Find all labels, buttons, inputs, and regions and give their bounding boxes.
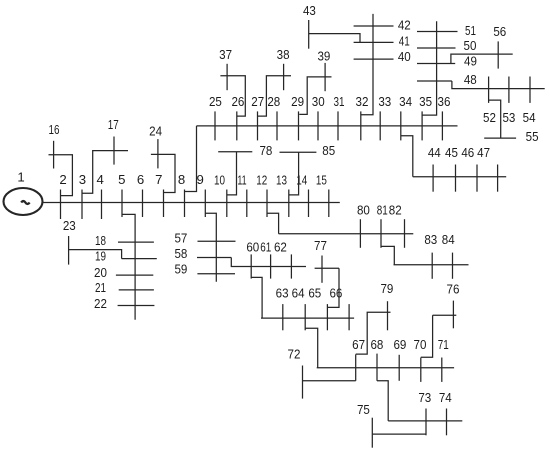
wire bus5 down, spine of comb 18-22 — [122, 214, 135, 319]
bus 52 — [488, 77, 490, 103]
svg-text:84: 84 — [442, 232, 455, 247]
bus 12 — [266, 190, 268, 218]
svg-text:39: 39 — [317, 48, 330, 63]
wire bus8 up to line 25-36 — [185, 126, 197, 192]
bus 44 — [432, 165, 434, 192]
svg-text:17: 17 — [108, 117, 119, 132]
wire bus10 up to bus78 — [227, 152, 237, 195]
svg-text:76: 76 — [447, 282, 460, 297]
wire line 25-36 — [197, 125, 458, 127]
svg-text:83: 83 — [424, 232, 437, 247]
svg-text:26: 26 — [231, 94, 244, 109]
svg-text:19: 19 — [95, 249, 106, 264]
bus 10 — [226, 190, 228, 218]
bus 76 — [452, 301, 454, 329]
svg-text:47: 47 — [477, 145, 490, 160]
generator tilde symbol — [21, 201, 29, 204]
wire main feeder buses 2-15 — [43, 202, 340, 204]
svg-text:28: 28 — [267, 94, 280, 109]
svg-text:73: 73 — [418, 390, 431, 405]
wire bus76 horizontal tick — [433, 314, 457, 316]
bus 27 — [257, 111, 259, 140]
wire bus75 horizontal to bus73 — [372, 433, 426, 435]
svg-text:36: 36 — [438, 94, 451, 109]
bus 21 — [119, 289, 154, 291]
bus 16 — [53, 141, 55, 169]
svg-text:30: 30 — [312, 94, 325, 109]
svg-text:8: 8 — [178, 172, 185, 187]
bus 63 — [282, 304, 284, 330]
wire bus58 to line 60-62 — [231, 258, 306, 267]
bus 17 — [113, 137, 115, 165]
svg-text:62: 62 — [274, 240, 287, 255]
svg-text:40: 40 — [398, 49, 411, 64]
svg-text:46: 46 — [461, 145, 474, 160]
wire bus67 up to bus79 — [356, 312, 391, 354]
svg-text:34: 34 — [399, 94, 412, 109]
svg-text:48: 48 — [464, 72, 477, 87]
bus 48 — [417, 80, 452, 82]
bus 66 — [348, 304, 350, 330]
wire bus34 down to comb 44-47 — [401, 136, 413, 177]
bus 80 — [359, 219, 361, 248]
bus 53 — [508, 77, 510, 103]
svg-text:10: 10 — [214, 173, 225, 188]
wire bus3 to bus17 — [82, 151, 128, 194]
bus 72 — [302, 366, 304, 399]
bus 37 — [226, 64, 228, 90]
svg-text:69: 69 — [393, 337, 406, 352]
bus 28 — [276, 111, 278, 140]
svg-text:77: 77 — [314, 238, 327, 253]
svg-text:41: 41 — [399, 34, 410, 49]
bus 32 — [360, 111, 362, 140]
bus 84 — [452, 253, 454, 279]
bus 18 — [118, 241, 154, 243]
svg-text:3: 3 — [79, 172, 86, 187]
bus 4 — [101, 190, 103, 220]
svg-text:57: 57 — [174, 231, 187, 246]
svg-text:79: 79 — [380, 281, 393, 296]
bus 24 — [157, 139, 159, 168]
bus 54 — [529, 77, 531, 103]
svg-text:23: 23 — [63, 218, 76, 233]
wire bus49 to bus56 — [451, 54, 513, 63]
generator G1 (bus 1) — [4, 188, 43, 215]
bus 61 — [270, 254, 272, 278]
wire bus12 down to line 80-82 — [267, 213, 279, 234]
bus 41 — [354, 41, 394, 43]
svg-text:66: 66 — [329, 285, 342, 300]
wire bus23 to comb 18-22 — [69, 250, 122, 259]
svg-text:42: 42 — [398, 17, 411, 32]
svg-text:25: 25 — [209, 94, 222, 109]
wire bus65 up to bus77 — [327, 268, 339, 307]
bus 45 — [455, 165, 457, 192]
svg-text:44: 44 — [428, 145, 441, 160]
svg-text:37: 37 — [219, 47, 232, 62]
wire comb line 44-47 — [413, 176, 506, 178]
bus 65 — [326, 304, 328, 330]
svg-text:70: 70 — [414, 337, 427, 352]
bus 19 — [122, 258, 157, 260]
svg-text:53: 53 — [502, 110, 515, 125]
svg-text:45: 45 — [445, 145, 458, 160]
bus 29 — [298, 111, 300, 140]
bus 13 — [288, 190, 290, 218]
svg-text:33: 33 — [378, 94, 391, 109]
svg-text:31: 31 — [334, 94, 345, 109]
wire bus13 up to bus85 — [289, 152, 299, 195]
svg-text:16: 16 — [49, 122, 60, 137]
bus 39 — [324, 63, 326, 91]
bus 46 — [476, 165, 478, 192]
bus 42 — [354, 25, 394, 27]
bus 82 — [404, 219, 406, 248]
svg-text:65: 65 — [308, 285, 321, 300]
bus 40 — [354, 58, 394, 60]
bus 70 — [420, 358, 422, 382]
svg-text:71: 71 — [438, 337, 449, 352]
bus 83 — [431, 253, 433, 279]
svg-text:9: 9 — [197, 172, 204, 187]
bus 23 — [68, 236, 70, 265]
bus 59 — [197, 273, 235, 275]
bus 81 — [380, 219, 382, 248]
wire bus9 down, spine of comb 57-59 — [205, 213, 216, 282]
wire bus2 to bus16 — [49, 155, 73, 196]
svg-text:2: 2 — [59, 172, 66, 187]
svg-text:59: 59 — [174, 262, 187, 277]
wire bus29 up to bus39 — [299, 77, 331, 115]
bus 49 — [417, 63, 455, 65]
svg-text:68: 68 — [370, 337, 383, 352]
wire comb line 67-71 — [317, 367, 454, 369]
bus 79 — [387, 301, 389, 330]
svg-text:52: 52 — [483, 110, 496, 125]
svg-text:51: 51 — [465, 23, 476, 38]
svg-text:63: 63 — [276, 285, 289, 300]
bus 11 — [246, 190, 248, 218]
bus 7 — [163, 190, 165, 218]
svg-text:50: 50 — [464, 38, 477, 53]
bus 69 — [398, 355, 400, 381]
wire bus77 horizontal tick — [315, 267, 339, 269]
bus 62 — [290, 254, 292, 278]
bus 77 — [321, 256, 323, 283]
bus 3 — [81, 190, 83, 220]
svg-text:60: 60 — [246, 240, 259, 255]
wire bus35 up, spine of 48-51 — [422, 21, 437, 115]
bus 85 — [280, 151, 317, 153]
wire bus26 up to bus37 — [220, 76, 245, 116]
svg-text:64: 64 — [292, 285, 305, 300]
bus 9 — [204, 190, 206, 218]
svg-text:29: 29 — [291, 94, 304, 109]
svg-text:67: 67 — [352, 337, 365, 352]
wire bus68 down to comb 73-74 — [377, 381, 388, 421]
bus 25 — [214, 111, 216, 140]
svg-text:49: 49 — [464, 54, 477, 69]
wire bus48 to line 52-54 — [452, 81, 545, 89]
bus 15 — [328, 190, 330, 218]
bus 78 — [218, 151, 252, 153]
svg-text:80: 80 — [357, 203, 370, 218]
bus 26 — [236, 111, 238, 140]
bus 50 — [417, 47, 456, 49]
svg-text:32: 32 — [356, 94, 369, 109]
svg-text:1: 1 — [17, 169, 24, 184]
svg-text:4: 4 — [97, 172, 104, 187]
svg-text:24: 24 — [149, 124, 162, 139]
bus 64 — [304, 304, 306, 330]
bus 51 — [417, 31, 458, 33]
wire bus60 down to comb 63-66 — [251, 277, 262, 318]
svg-text:75: 75 — [357, 402, 370, 417]
svg-text:7: 7 — [155, 172, 162, 187]
bus 58 — [197, 257, 231, 259]
bus 2 — [60, 190, 62, 220]
bus 6 — [142, 190, 144, 218]
wire bus27 up to bus38 — [258, 76, 291, 116]
bus 75 — [371, 418, 373, 448]
bus 8 — [184, 190, 186, 218]
bus 38 — [283, 64, 285, 90]
bus 55 — [484, 137, 516, 139]
svg-text:12: 12 — [256, 173, 267, 188]
bus 31 — [337, 111, 339, 140]
svg-text:55: 55 — [526, 129, 539, 144]
wire comb line 83-84 — [394, 264, 469, 266]
svg-text:61: 61 — [260, 240, 271, 255]
bus 71 — [441, 358, 443, 382]
bus 14 — [308, 190, 310, 218]
bus 56 — [497, 41, 499, 68]
wire bus52 down to bus55 — [489, 100, 501, 138]
bus 33 — [379, 111, 381, 140]
svg-text:21: 21 — [95, 280, 106, 295]
svg-text:78: 78 — [259, 143, 272, 158]
svg-text:15: 15 — [316, 173, 327, 188]
bus 34 — [400, 111, 402, 140]
wire line 80-82 — [279, 233, 414, 235]
bus 36 — [441, 111, 443, 140]
wire bus64 down to comb 67-71 — [305, 328, 318, 368]
bus 5 — [121, 190, 123, 218]
wire bus7 to bus24 — [151, 154, 175, 192]
bus 35 — [421, 111, 423, 140]
bus 68 — [376, 354, 378, 381]
svg-text:5: 5 — [118, 172, 125, 187]
bus 30 — [317, 111, 319, 140]
svg-text:72: 72 — [288, 346, 301, 361]
svg-text:74: 74 — [439, 390, 452, 405]
svg-text:22: 22 — [94, 296, 107, 311]
svg-text:43: 43 — [303, 3, 316, 18]
svg-text:14: 14 — [296, 173, 307, 188]
svg-text:13: 13 — [276, 173, 287, 188]
svg-text:85: 85 — [322, 143, 335, 158]
bus 57 — [198, 240, 236, 242]
svg-text:54: 54 — [523, 110, 536, 125]
wire bus70 up to bus76 — [421, 315, 433, 357]
bus 20 — [116, 274, 153, 276]
bus 22 — [118, 305, 155, 307]
wire bus32 up, spine of 40-42 — [361, 14, 373, 115]
wire bus81 to comb 83-84 — [381, 246, 394, 264]
svg-text:58: 58 — [174, 246, 187, 261]
svg-text:35: 35 — [419, 94, 432, 109]
bus 43 — [308, 20, 310, 49]
svg-text:18: 18 — [95, 233, 106, 248]
svg-text:11: 11 — [237, 173, 246, 188]
svg-text:81: 81 — [377, 203, 388, 218]
svg-text:27: 27 — [251, 94, 264, 109]
svg-text:82: 82 — [389, 203, 402, 218]
svg-text:6: 6 — [137, 172, 144, 187]
bus 47 — [497, 165, 499, 192]
svg-text:20: 20 — [94, 265, 107, 280]
wire bus43 to bus41 — [309, 34, 360, 43]
svg-text:38: 38 — [277, 47, 290, 62]
wire comb line 73-74 — [388, 420, 462, 422]
wire bus72 horizontal to bus67 — [303, 380, 356, 382]
bus 60 — [250, 254, 252, 278]
bus 73 — [425, 409, 427, 436]
svg-text:56: 56 — [493, 24, 506, 39]
bus 74 — [446, 409, 448, 436]
bus 67 — [355, 354, 357, 380]
wire comb line 63-66 — [261, 317, 354, 319]
